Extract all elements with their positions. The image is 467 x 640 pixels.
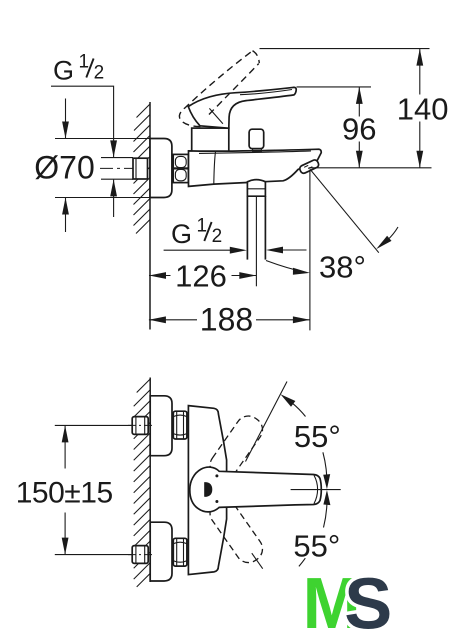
dashed lever at -55deg (plan): [205, 495, 267, 568]
faucet body and spout (side view): [189, 149, 322, 186]
wall flange (escutcheon, side view): [150, 139, 172, 198]
upper flange (plan): [150, 396, 172, 456]
svg-text:Ø70: Ø70: [34, 150, 94, 186]
lower 55deg arc tail: [299, 558, 305, 566]
spout tip vertical extension: [309, 170, 311, 331]
faucet body (plan): [188, 406, 226, 575]
lever tip inner cap line: [314, 475, 318, 503]
svg-text:2: 2: [94, 63, 105, 84]
svg-text:2: 2: [212, 226, 223, 247]
lower S-union nut (plan): [173, 538, 187, 566]
svg-text:G: G: [53, 56, 74, 86]
svg-text:150±15: 150±15: [16, 476, 113, 509]
38 degree arc arrows: [266, 261, 307, 273]
wall hatching (bottom view): [134, 379, 151, 587]
dimension 126: [149, 275, 171, 277]
shower hose nut: [247, 180, 265, 197]
in-wall square fitting: [133, 158, 148, 179]
svg-text:55°: 55°: [293, 528, 340, 563]
lower 55deg arc at tip: [323, 490, 330, 505]
svg-text:126: 126: [175, 259, 227, 294]
lever front crease: [209, 108, 223, 123]
svg-text:38°: 38°: [319, 250, 366, 285]
upper S-union nut (plan): [173, 411, 187, 439]
lower flange (plan): [150, 522, 172, 581]
svg-text:G: G: [171, 219, 192, 249]
lever handle (solid, side view): [188, 87, 296, 128]
lever raised (dashed outline): [179, 51, 259, 127]
spout top inner line: [199, 151, 311, 154]
MS logo: [303, 564, 393, 640]
lever handle (solid, plan): [190, 467, 322, 512]
svg-text:188: 188: [200, 301, 253, 337]
upper 55deg line: [246, 382, 288, 462]
wall line (top view): [149, 102, 151, 330]
lower in-wall hex: [132, 546, 148, 564]
38 degree slope line: [310, 169, 379, 253]
dashed lever at +55deg (plan): [205, 411, 267, 484]
cartridge block under lever: [192, 128, 229, 151]
upper in-wall hex: [132, 417, 148, 435]
supply pipe lines in wall: [101, 157, 133, 159]
baseline for 96/140: [309, 167, 432, 169]
hose centerline extension: [255, 196, 257, 286]
lower lever axis tick: [252, 553, 263, 569]
svg-text:140: 140: [397, 92, 449, 127]
svg-text:96: 96: [342, 112, 376, 147]
svg-text:55°: 55°: [294, 419, 341, 454]
upper 55deg arc at tip: [323, 452, 327, 486]
diverter knob: [249, 129, 264, 148]
lever top inner line: [240, 90, 292, 95]
lever head D-mark: [204, 482, 212, 497]
S-union hex nut (side view): [173, 154, 188, 182]
lever head dots: [215, 474, 218, 477]
wall line (bottom view): [149, 378, 151, 583]
dimension Ø70: [55, 138, 150, 140]
G1/2 hose leader arrows: [164, 249, 232, 251]
label G1/2 (top left): [53, 52, 104, 86]
svg-text:S: S: [344, 565, 392, 640]
dimension 150+-15: [55, 424, 132, 426]
label G1/2 (hose): [171, 216, 222, 250]
lever centerline (plan): [291, 489, 341, 491]
body joint line: [214, 151, 216, 184]
dimension 140: [260, 48, 430, 50]
svg-text:1: 1: [79, 52, 90, 73]
wall hatching (top view): [134, 104, 151, 234]
centerline (top view): [100, 167, 308, 169]
G1/2 leader and arrows: [51, 86, 114, 157]
upper 55deg leader arrow: [281, 394, 296, 407]
dimension 96: [297, 86, 372, 88]
shower hose pipe: [246, 196, 248, 259]
dimension 188: [149, 319, 197, 321]
svg-text:1: 1: [197, 216, 208, 237]
aerator at spout tip: [299, 159, 320, 174]
